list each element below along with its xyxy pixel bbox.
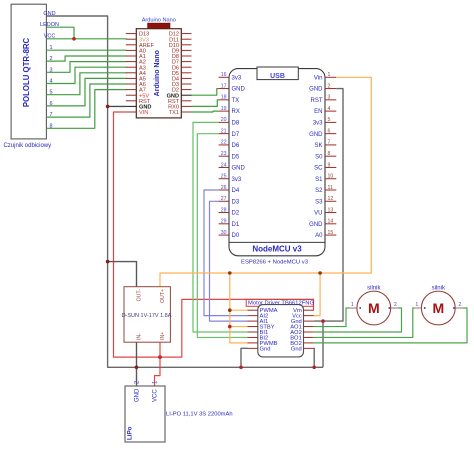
U4 pin PWMA (left) xyxy=(248,309,258,311)
svg-text:ESP8266 + NodeMCU v3: ESP8266 + NodeMCU v3 xyxy=(241,259,309,265)
U3 pin 11 S2 (right) xyxy=(325,189,336,191)
svg-text:24: 24 xyxy=(221,162,227,168)
svg-text:19: 19 xyxy=(221,106,227,112)
U3 pin 29 D1 (left) xyxy=(219,223,229,225)
svg-text:OUT+: OUT+ xyxy=(160,289,166,303)
svg-text:D8: D8 xyxy=(232,120,240,126)
U3 pin 17 GND (left) xyxy=(219,88,229,90)
sensor U1 POLOLU QTR-8RC body xyxy=(3,4,51,149)
U3 pin 7 SK (right) xyxy=(325,144,336,146)
svg-text:silnik: silnik xyxy=(367,286,381,292)
wire D-SUN IN+ to red net and battery VCC xyxy=(155,342,161,386)
U4 pin Vm (right) xyxy=(304,309,314,311)
svg-text:Gnd: Gnd xyxy=(260,346,271,352)
svg-text:D5: D5 xyxy=(232,154,240,160)
U2 pin A2 (left) xyxy=(126,61,137,63)
U2 pin D10 (right) xyxy=(181,44,191,46)
microcontroller U3 NodeMCU v3 body xyxy=(229,69,325,266)
battery BT1 LiPo body xyxy=(125,386,233,442)
svg-text:IN-: IN- xyxy=(136,333,142,340)
wire NodeMCU GND pin2 to driver Gnd (gray net) xyxy=(314,89,343,322)
U3 pin 24 GND (left) xyxy=(219,166,229,168)
U4 pin STBY (left) xyxy=(248,326,258,328)
svg-text:GND: GND xyxy=(232,87,246,93)
U2 pin A6 (left) xyxy=(126,83,137,85)
svg-text:LiPo: LiPo xyxy=(127,426,134,440)
M1 pin 2 xyxy=(391,307,398,309)
wire Arduino TX1 to NodeMCU RX pin19 xyxy=(192,110,219,113)
svg-text:D3: D3 xyxy=(232,199,240,205)
wire QTR pin2 to A1 xyxy=(47,56,127,61)
svg-text:POLOLU QTR-8RC: POLOLU QTR-8RC xyxy=(22,37,31,107)
node orange bus junction A xyxy=(228,271,232,275)
svg-text:GND: GND xyxy=(309,222,323,228)
svg-text:3v3: 3v3 xyxy=(313,120,323,126)
svg-text:TX: TX xyxy=(232,98,240,104)
svg-text:SK: SK xyxy=(314,143,322,149)
U3 pin 18 TX (left) xyxy=(219,99,229,101)
svg-text:GND: GND xyxy=(309,87,323,93)
svg-text:Gnd: Gnd xyxy=(291,346,302,352)
wire Arduino RX0 to NodeMCU TX pin18 xyxy=(192,100,219,107)
wire QTR pin3 to A2 xyxy=(47,62,127,73)
svg-text:D7: D7 xyxy=(232,132,240,138)
U4 pin AI2 (left) xyxy=(248,315,258,317)
U2 pin D2 (right) xyxy=(181,89,191,91)
svg-text:27: 27 xyxy=(221,196,227,202)
svg-text:A0: A0 xyxy=(315,233,323,239)
node driver Gnd pin junction xyxy=(321,319,325,323)
U2 pin A7 (left) xyxy=(126,89,137,91)
U3 pin 5 3v3 (right) xyxy=(325,121,336,123)
svg-text:2: 2 xyxy=(458,302,461,308)
svg-text:Arduino Nano: Arduino Nano xyxy=(142,17,176,23)
regulator U5 D-SUN body xyxy=(122,287,172,343)
motor M2 silnik xyxy=(414,286,462,325)
svg-text:11: 11 xyxy=(328,185,333,191)
U3 pin 16 3v3 (left) xyxy=(219,76,229,78)
M1 pin 1 xyxy=(350,307,357,309)
wire QTR pin8 to A7 xyxy=(47,90,127,129)
svg-text:S0: S0 xyxy=(315,154,323,160)
U3 pin 23 D5 (left) xyxy=(219,155,229,157)
svg-text:3v3: 3v3 xyxy=(232,75,242,81)
U3 pin 9 SC (right) xyxy=(325,166,336,168)
op-board U2 Arduino Nano xyxy=(136,17,181,118)
svg-text:LI-PO 11,1V 3S 2200mAh: LI-PO 11,1V 3S 2200mAh xyxy=(166,411,233,417)
svg-text:GND: GND xyxy=(309,132,323,138)
U3 pin 3 RST (right) xyxy=(325,99,336,101)
svg-text:22: 22 xyxy=(221,140,227,146)
node orange STBY junction xyxy=(228,325,232,329)
svg-text:OUT-: OUT- xyxy=(136,289,142,302)
svg-text:M: M xyxy=(432,300,444,316)
svg-text:1: 1 xyxy=(328,72,331,78)
svg-text:S1: S1 xyxy=(315,177,323,183)
wire ground bus to D-SUN OUT- xyxy=(108,262,137,287)
svg-text:GND: GND xyxy=(232,166,246,172)
svg-text:M: M xyxy=(368,300,380,316)
svg-text:12: 12 xyxy=(328,196,334,202)
U2 pin D3 (right) xyxy=(181,83,191,85)
wire QTR pin5 to A4 xyxy=(47,73,127,95)
svg-text:EN: EN xyxy=(314,109,322,115)
U3 pin 25 3v3 (left) xyxy=(219,178,229,180)
U3 pin 4 EN (right) xyxy=(325,110,336,112)
svg-text:D2: D2 xyxy=(232,211,240,217)
svg-text:23: 23 xyxy=(221,151,227,157)
svg-text:28: 28 xyxy=(221,207,227,213)
U4 pin Gnd (right) xyxy=(304,320,314,322)
svg-text:7: 7 xyxy=(328,140,331,146)
wire QTR pin7 to A6 xyxy=(47,84,127,117)
svg-text:VCC: VCC xyxy=(152,389,158,402)
wire orange branch to driver Vcc xyxy=(314,273,320,316)
wire NodeMCU D4 pin26 to driver AI2 xyxy=(204,190,248,316)
wire QTR pin1 to A0 xyxy=(47,49,127,51)
svg-text:2: 2 xyxy=(328,83,331,89)
svg-text:TX1: TX1 xyxy=(169,110,179,116)
U3 pin 19 RX (left) xyxy=(219,110,229,112)
U2 pin A0 (left) xyxy=(126,49,137,51)
U4 pin Vcc (right) xyxy=(304,315,314,317)
U4 pin BI2 (left) xyxy=(248,336,258,338)
svg-text:VIN: VIN xyxy=(139,110,148,116)
svg-text:VU: VU xyxy=(314,211,322,217)
U4 pin AO2 (right) xyxy=(304,331,314,333)
U2 pin D5 (right) xyxy=(181,72,191,74)
U4 pin PWMB (left) xyxy=(248,342,258,344)
U4 pin BO1 (right) xyxy=(304,336,314,338)
node LEDON/VCC junction xyxy=(72,37,76,41)
svg-text:1: 1 xyxy=(415,302,418,308)
U3 pin 8 S0 (right) xyxy=(325,155,336,157)
U2 USB connector xyxy=(148,23,170,29)
svg-text:Arduino Nano: Arduino Nano xyxy=(154,50,161,96)
node ground bus / driver Gnd-left junction xyxy=(239,366,243,370)
svg-text:21: 21 xyxy=(221,128,227,134)
svg-text:GND: GND xyxy=(134,388,140,402)
wire QTR GND to ground bus (gray net) xyxy=(47,16,324,367)
U3 pin 30 D0 (left) xyxy=(219,234,229,236)
U3 USB connector xyxy=(257,67,298,80)
svg-text:RST: RST xyxy=(311,98,323,104)
svg-text:29: 29 xyxy=(221,219,227,225)
svg-text:30: 30 xyxy=(221,230,227,236)
U2 pin D9 (right) xyxy=(181,49,191,51)
wire driver BO1 to motor2 pin1 xyxy=(314,308,415,337)
U4 pin BI1 (left) xyxy=(248,331,258,333)
svg-text:13: 13 xyxy=(328,207,334,213)
wire orange branch to PWMA / STBY / PWMB xyxy=(230,273,248,343)
U2 pin D7 (right) xyxy=(181,61,191,63)
wire QTR VCC to Arduino 3V3 xyxy=(47,38,127,40)
svg-text:IN+: IN+ xyxy=(160,332,166,340)
svg-text:17: 17 xyxy=(221,83,227,89)
svg-text:20: 20 xyxy=(221,117,227,123)
wire QTR LEDON to VCC junction xyxy=(47,27,75,39)
U2 pin +5V (left) xyxy=(126,94,137,96)
U2 pin TX1 (right) xyxy=(181,111,191,113)
svg-text:S2: S2 xyxy=(315,188,323,194)
U3 pin 14 GND (right) xyxy=(325,223,336,225)
svg-text:SC: SC xyxy=(314,166,323,172)
svg-text:18: 18 xyxy=(221,95,227,101)
svg-text:3: 3 xyxy=(328,95,331,101)
svg-text:NodeMCU v3: NodeMCU v3 xyxy=(252,245,302,254)
svg-text:2: 2 xyxy=(394,302,397,308)
U2 pin D11 (right) xyxy=(181,38,191,40)
wire orange net: D-SUN OUT+ to NodeMCU Vin xyxy=(160,77,371,286)
U3 pin 12 S3 (right) xyxy=(325,200,336,202)
U3 pin 13 VU (right) xyxy=(325,212,336,214)
U4 pin Gnd (right) xyxy=(304,347,314,349)
svg-text:8: 8 xyxy=(328,151,331,157)
svg-text:10: 10 xyxy=(328,174,334,180)
U2 pin RX0 (right) xyxy=(181,105,191,107)
svg-text:RX: RX xyxy=(232,109,240,115)
svg-text:D0: D0 xyxy=(232,233,240,239)
svg-text:6: 6 xyxy=(328,128,331,134)
svg-text:14: 14 xyxy=(328,219,334,225)
wire driver BO2 to motor2 pin2 xyxy=(314,308,467,343)
svg-text:4: 4 xyxy=(328,106,331,112)
motor driver U4 TB6612FNG body xyxy=(246,299,314,357)
svg-text:Motor Driver TB6612FNG: Motor Driver TB6612FNG xyxy=(248,301,314,307)
U3 pin 15 A0 (right) xyxy=(325,234,336,236)
U2 pin A1 (left) xyxy=(126,55,137,57)
wire driver Gnd bottom-right to ground bus xyxy=(313,348,315,367)
wire NodeMCU D7 pin21 to driver BI2 xyxy=(197,134,247,338)
wire QTR pin4 to A3 xyxy=(47,67,127,83)
svg-text:25: 25 xyxy=(221,174,227,180)
U3 pin 20 D8 (left) xyxy=(219,121,229,123)
U4 pin Gnd (left) xyxy=(248,347,258,349)
U2 pin GND (left) xyxy=(126,105,137,107)
svg-text:Vin: Vin xyxy=(314,75,323,81)
node ground bus / Arduino GND junction xyxy=(106,105,110,109)
U2 pin A4 (left) xyxy=(126,72,137,74)
motor M1 silnik xyxy=(350,286,398,325)
U4 pin AO1 (right) xyxy=(304,326,314,328)
U3 pin 27 D3 (left) xyxy=(219,200,229,202)
svg-text:D-SUN 1V-17V 1.8A: D-SUN 1V-17V 1.8A xyxy=(122,313,172,319)
U3 pin 26 D4 (left) xyxy=(219,189,229,191)
svg-text:3v3: 3v3 xyxy=(232,177,242,183)
U3 pin 1 Vin (right) xyxy=(325,76,336,78)
node red net IN+/battery junction xyxy=(158,355,162,359)
U3 pin 22 D6 (left) xyxy=(219,144,229,146)
svg-text:D4: D4 xyxy=(232,188,240,194)
U2 pin AREF (left) xyxy=(126,44,137,46)
node orange bus junction B xyxy=(318,271,322,275)
svg-text:5: 5 xyxy=(328,117,331,123)
wire QTR pin6 to A5 xyxy=(47,78,127,106)
wire driver Gnd bottom-left to ground bus xyxy=(241,348,248,367)
svg-text:1: 1 xyxy=(351,302,354,308)
U3 pin 10 S1 (right) xyxy=(325,178,336,180)
U2 pin A3 (left) xyxy=(126,66,137,68)
svg-text:16: 16 xyxy=(221,72,227,78)
node ground bus / battery GND junction xyxy=(135,366,139,370)
U2 pin D12 (right) xyxy=(181,33,191,35)
U2 pin D4 (right) xyxy=(181,77,191,79)
svg-text:D6: D6 xyxy=(232,143,240,149)
node orange PWMA junction xyxy=(228,308,232,312)
wire driver AO1 to motor1 pin1 xyxy=(314,308,350,327)
wire Arduino GND(right) to NodeMCU GND pin17 xyxy=(192,89,219,96)
U2 pin GND (right) xyxy=(181,94,191,96)
U3 pin 6 GND (right) xyxy=(325,133,336,135)
U2 pin D8 (right) xyxy=(181,55,191,57)
svg-text:D1: D1 xyxy=(232,222,240,228)
U3 pin 28 D2 (left) xyxy=(219,212,229,214)
svg-text:15: 15 xyxy=(328,230,334,236)
U2 pin D6 (right) xyxy=(181,66,191,68)
svg-text:S3: S3 xyxy=(315,199,323,205)
U4 pin AI1 (left) xyxy=(248,320,258,322)
svg-text:26: 26 xyxy=(221,185,227,191)
U2 pin D13 (left) xyxy=(126,33,137,35)
svg-text:9: 9 xyxy=(328,162,331,168)
node ground bus / driver Gnd-right junction xyxy=(312,366,316,370)
U4 pin BO2 (right) xyxy=(304,342,314,344)
wire NodeMCU D3 pin27 to driver AI1 xyxy=(210,201,248,321)
wire Arduino VIN (red net) down-right-up to motor driver Vm xyxy=(114,112,314,357)
wire NodeMCU D8 pin20 to driver BI1 xyxy=(193,122,248,332)
U3 pin 21 D7 (left) xyxy=(219,133,229,135)
node ground bus / OUT- junction xyxy=(106,260,110,264)
wire ground bus to Arduino GND xyxy=(108,105,127,107)
U3 pin 2 GND (right) xyxy=(325,88,336,90)
wire ground junction down from driver Gnd pin to bottom bus xyxy=(322,321,324,367)
svg-text:USB: USB xyxy=(270,73,285,80)
U2 pin A5 (left) xyxy=(126,77,137,79)
svg-text:Czujnik odbiciowy: Czujnik odbiciowy xyxy=(3,143,51,149)
U2 pin RST (left) xyxy=(126,100,137,102)
svg-text:silnik: silnik xyxy=(432,286,446,292)
wire driver AO2 to motor1 pin2 xyxy=(314,308,402,332)
U2 pin RST (right) xyxy=(181,100,191,102)
M2 pin 1 xyxy=(414,307,421,309)
M2 pin 2 xyxy=(455,307,462,309)
U2 pin 3V3 (left) xyxy=(126,38,137,40)
U1 pin labels 1-8 xyxy=(49,45,52,129)
U2 pin VIN (left) xyxy=(126,111,137,113)
wire D-SUN IN- / battery GND vertical xyxy=(136,342,138,386)
